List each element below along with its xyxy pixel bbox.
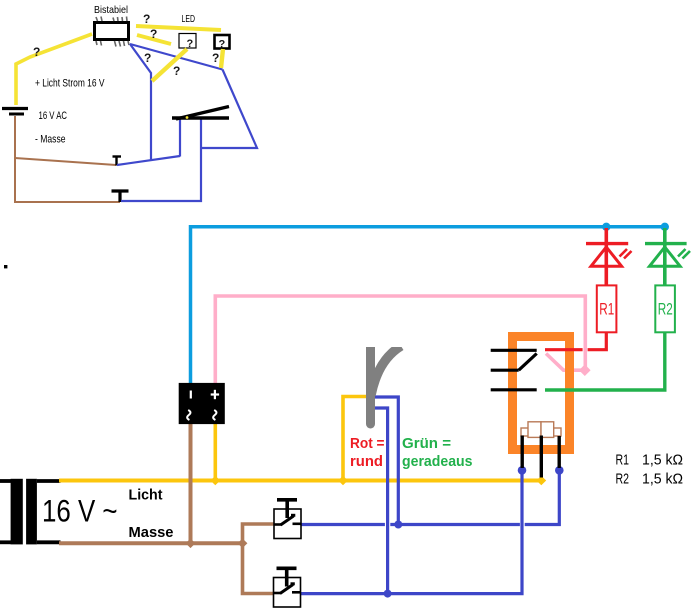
svg-text:+ Licht Strom 16 V: + Licht Strom 16 V: [35, 77, 105, 89]
relay contact common top: [491, 349, 537, 352]
wire blue switch left down: [179, 119, 181, 157]
relay moving contact arm (pink): [546, 354, 585, 371]
wire yellow Licht bus: [59, 479, 541, 483]
node brown diamond at rectifier drop: [186, 539, 196, 549]
wire blue turnout branch1 down: [375, 397, 399, 525]
wire cyan rectifier minus to LEDs: [191, 227, 667, 383]
wire yellow diagonal to LED box1: [152, 49, 187, 81]
svg-text:Grün =: Grün =: [402, 435, 451, 452]
wire yellow sketch stroke2: [137, 35, 171, 44]
wire blue box corner down: [130, 44, 151, 160]
wire blue switch right down: [121, 119, 201, 201]
node yellow diamond at rectifier drop: [210, 476, 220, 486]
resistor R1: [597, 285, 617, 332]
switch (sketch): [172, 116, 229, 120]
wire yellow battery to box: [16, 34, 92, 105]
LED box 2 (sketch): [215, 35, 230, 49]
svg-text:16 V AC: 16 V AC: [39, 110, 68, 122]
MAIN SECTION: [0, 223, 690, 607]
rectifier BR1: [179, 383, 225, 424]
svg-text:?: ?: [187, 38, 194, 50]
svg-text:Licht: Licht: [129, 487, 163, 504]
wire blue turnout branch2 down: [375, 408, 388, 594]
wire blue shallow diagonal: [117, 156, 180, 165]
pushbutton S1: [274, 500, 301, 539]
wire brown Masse bus: [59, 541, 243, 545]
wire yellow sketch stroke1: [136, 26, 221, 30]
bistable relay box (sketch): [95, 23, 129, 40]
svg-text:?: ?: [143, 12, 150, 26]
svg-text:- Masse: - Masse: [35, 133, 66, 145]
svg-text:R1: R1: [599, 299, 614, 318]
svg-text:?: ?: [150, 27, 157, 41]
svg-text:1,5 kΩ: 1,5 kΩ: [642, 452, 683, 469]
terminal T1 (sketch): [113, 155, 122, 157]
svg-text:R1: R1: [616, 452, 630, 469]
LED D1 red: [586, 228, 632, 286]
svg-text:?: ?: [173, 64, 180, 78]
battery (sketch): [2, 107, 28, 110]
transformer T1: [0, 479, 61, 545]
node blue dot relay right pin: [555, 466, 564, 475]
relay K1 orange body: [513, 337, 570, 450]
wire blue pushbutton S1 to relay right pin: [301, 470, 559, 525]
relay pin right: [558, 436, 561, 468]
svg-text:?: ?: [219, 39, 226, 51]
wire yellow rectifier output down: [214, 424, 218, 481]
svg-text:R2: R2: [616, 470, 630, 487]
pin marks on bistable box: [96, 17, 129, 47]
svg-text:1,5 kΩ: 1,5 kΩ: [642, 470, 683, 487]
wire blue vertex to triangle: [201, 70, 257, 149]
period dot: [4, 265, 7, 268]
wire green R2 to relay contact: [545, 333, 665, 390]
wire brown branch to pushbuttons: [243, 524, 275, 594]
svg-text:LED: LED: [182, 13, 196, 25]
relay pin left: [521, 436, 524, 469]
node cyan junction at red LED: [602, 223, 610, 231]
wire yellow bus to turnout: [343, 397, 371, 481]
wire brown rectifier to Masse: [189, 424, 193, 543]
turnout symbol (gray): [371, 346, 402, 424]
node blue junction S1 net: [394, 521, 402, 529]
wire pink rectifier plus to relay arm: [215, 296, 585, 383]
wire blue pushbutton S2 to relay left pin: [301, 470, 523, 594]
relay contact lower with diagonal: [491, 369, 519, 372]
node blue dot relay left pin: [518, 466, 527, 475]
SKETCH SECTION: [2, 4, 257, 268]
resistor R2: [655, 285, 675, 332]
svg-text:?: ?: [33, 45, 40, 59]
svg-text:?: ?: [212, 51, 219, 65]
pushbutton S2: [274, 568, 301, 607]
LED D2 green: [645, 228, 690, 286]
node brown diamond at branch: [238, 539, 248, 549]
svg-text:Masse: Masse: [129, 524, 174, 541]
relay terminal block: [521, 422, 561, 438]
relay pin middle: [540, 436, 543, 478]
wire brown battery branch: [15, 158, 116, 165]
svg-text:geradeaus: geradeaus: [402, 453, 473, 470]
wire brown battery down: [15, 116, 120, 202]
svg-text:R2: R2: [658, 299, 673, 318]
node yellow diamond at relay middle pin: [536, 476, 546, 486]
node pink diamond junction: [579, 364, 591, 376]
node cyan junction at green LED: [661, 223, 669, 231]
svg-text:rund: rund: [350, 453, 383, 470]
wire red R1 to relay contact: [588, 333, 607, 350]
wire blue long diagonal: [130, 44, 223, 70]
svg-text:Bistabiel: Bistabiel: [94, 4, 128, 16]
svg-text:Rot =: Rot =: [350, 435, 385, 452]
svg-text:16 V ~: 16 V ~: [42, 493, 118, 529]
node blue junction S2 net: [384, 590, 392, 598]
relay contact bottom: [491, 388, 537, 391]
LED box 1 (sketch): [179, 34, 196, 49]
node yellow diamond at turnout drop: [338, 476, 348, 486]
terminal T2 (sketch): [112, 189, 129, 192]
svg-text:?: ?: [144, 51, 151, 65]
wire yellow LED box2 down: [221, 49, 223, 68]
